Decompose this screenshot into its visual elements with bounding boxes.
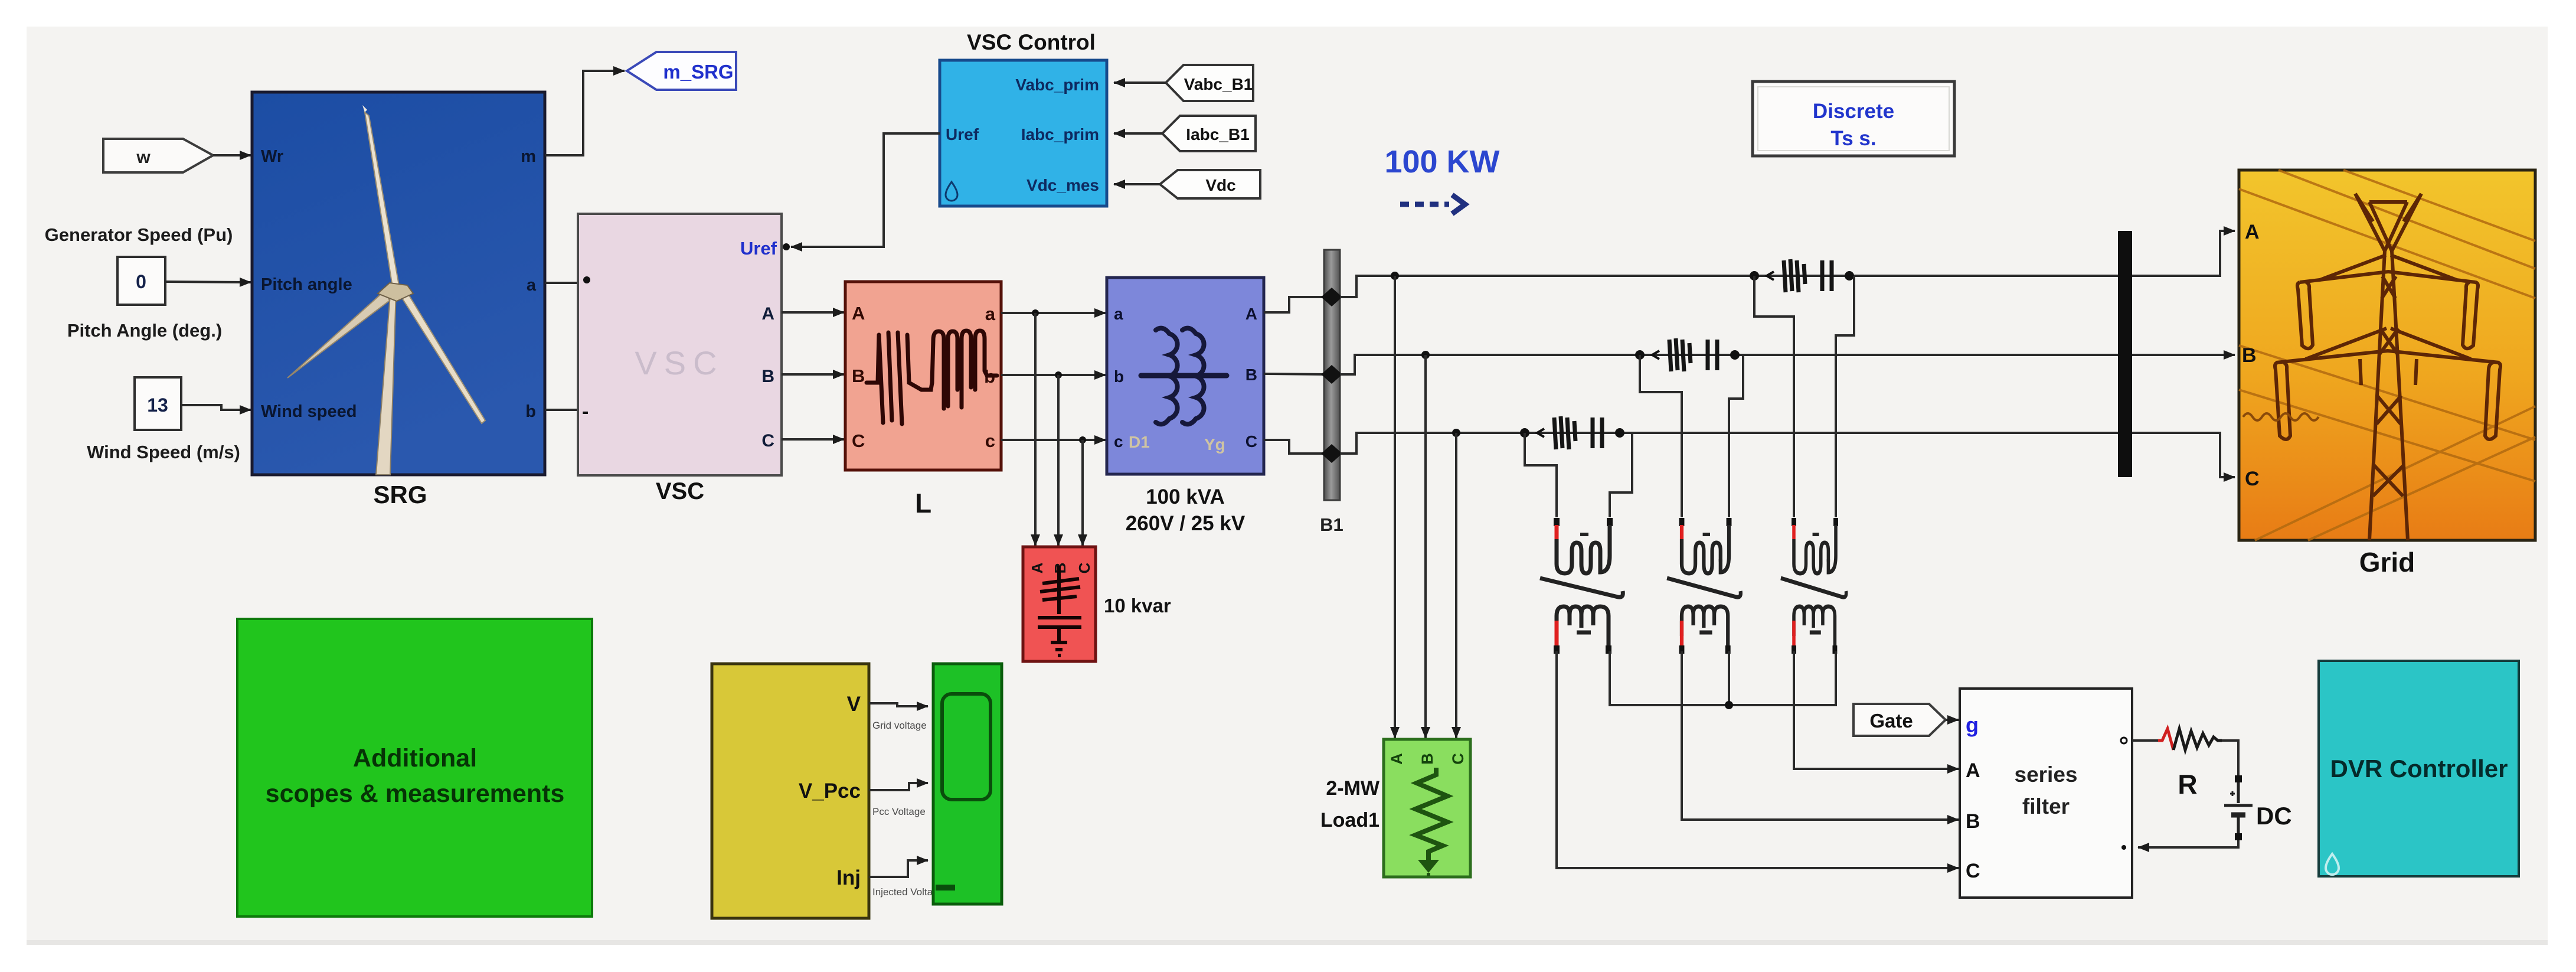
svg-text:C: C	[1966, 860, 1980, 882]
svg-text:B: B	[852, 366, 865, 386]
svg-text:A: A	[852, 303, 865, 324]
svg-text:A: A	[2245, 221, 2260, 243]
svg-text:A: A	[1966, 759, 1980, 782]
svg-text:Vdc: Vdc	[1205, 176, 1235, 194]
goto tag m_SRG	[627, 52, 736, 90]
wire down to 10 kvar A	[1034, 313, 1037, 546]
svg-text:Gate: Gate	[1869, 710, 1913, 732]
svg-text:-: -	[582, 400, 589, 423]
svg-text:V_Pcc: V_Pcc	[799, 779, 861, 803]
svg-text:m: m	[521, 147, 536, 166]
junction node phase C to load	[1452, 429, 1460, 437]
transformer 100 kVA block	[1107, 278, 1264, 474]
wire phase C line bus B1 to grid bus	[1340, 433, 2118, 454]
injection transformer T3 (phase A)	[1781, 518, 1846, 654]
svg-text:C: C	[761, 431, 774, 451]
svg-text:Uref: Uref	[946, 125, 979, 143]
wire grid bus to Grid C	[2132, 433, 2235, 477]
svg-text:Pcc Voltage: Pcc Voltage	[872, 806, 926, 817]
svg-text:B: B	[761, 367, 774, 386]
wire resistor to DC source	[2222, 741, 2238, 779]
resistor R	[2158, 729, 2222, 750]
SRG wind turbine block	[252, 92, 545, 475]
wire phase C down to load C	[1455, 433, 1457, 738]
svg-text:B: B	[1245, 366, 1257, 384]
svg-text:100 KW: 100 KW	[1384, 144, 1499, 180]
svg-text:A: A	[761, 304, 774, 324]
three-phase load block 2-MW Load1	[1384, 739, 1470, 877]
wire secondary common bus T1-T2-T3	[1610, 651, 1836, 705]
constant Wind Speed 13	[135, 377, 181, 430]
svg-text:Wind Speed (m/s): Wind Speed (m/s)	[87, 442, 240, 462]
svg-text:B: B	[1966, 810, 1980, 833]
wire LC-A left down to transformer TA primary left	[1754, 276, 1794, 517]
svg-text:A: A	[1388, 753, 1405, 765]
wire Vdc to VSC Control	[1114, 183, 1160, 185]
junction node phase B to load	[1421, 351, 1430, 359]
svg-text:Inj: Inj	[836, 866, 861, 889]
svg-text:100 kVA: 100 kVA	[1146, 485, 1225, 508]
capacitor bank 10 kvar block	[1023, 547, 1096, 661]
wire down to 10 kvar B	[1057, 375, 1060, 546]
svg-text:C: C	[1449, 753, 1467, 765]
svg-text:SRG: SRG	[373, 481, 427, 508]
svg-text:10 kvar: 10 kvar	[1104, 595, 1171, 617]
svg-text:VSC: VSC	[656, 478, 704, 504]
powergui Discrete block	[1753, 81, 1954, 156]
transformer coil symbols	[1141, 328, 1227, 425]
svg-text:L: L	[915, 488, 931, 518]
wire SRG a to VSC plus	[545, 282, 578, 284]
svg-text:Vdc_mes: Vdc_mes	[1027, 176, 1099, 194]
svg-text:Uref: Uref	[740, 238, 777, 259]
grid bus bar	[2118, 231, 2132, 477]
svg-text:b: b	[525, 402, 536, 421]
load resistor zigzag	[1416, 768, 1447, 860]
wire SRG b to VSC minus	[545, 409, 578, 411]
svg-text:Vabc_prim: Vabc_prim	[1015, 76, 1099, 94]
wire L b to transformer b	[1001, 374, 1106, 376]
inductor L block	[845, 282, 1001, 470]
from tag Vabc_B1	[1166, 65, 1253, 101]
bus B1	[1321, 250, 1342, 500]
wire DC source to series filter minus	[2138, 840, 2238, 847]
svg-text:Discrete: Discrete	[1813, 100, 1894, 123]
DVR Controller block	[2319, 661, 2519, 876]
constant Pitch Angle 0	[117, 257, 165, 305]
svg-text:Iabc_B1: Iabc_B1	[1186, 125, 1249, 143]
distant insulator dots	[2243, 413, 2319, 420]
from tag Vdc	[1160, 170, 1260, 198]
wire Iabc_B1 to VSC Control	[1114, 132, 1162, 135]
wire V to scope	[869, 703, 928, 706]
svg-text:DC: DC	[2256, 802, 2292, 830]
injection transformer T1 (phase C)	[1540, 518, 1623, 654]
wire VSC C to L C	[782, 438, 844, 441]
svg-text:Load1: Load1	[1320, 809, 1379, 831]
series LC branch phase C	[1520, 416, 1624, 449]
L coil drawing	[867, 331, 997, 424]
svg-text:VSC: VSC	[635, 344, 724, 381]
turbine blade lower-right	[400, 291, 485, 423]
svg-text:0: 0	[136, 271, 146, 292]
svg-text:w: w	[136, 148, 151, 167]
svg-text:a: a	[527, 276, 537, 295]
svg-text:Iabc_prim: Iabc_prim	[1021, 125, 1099, 143]
svg-text:c: c	[985, 430, 995, 451]
svg-text:Grid: Grid	[2359, 547, 2415, 578]
from tag Iabc_B1	[1162, 116, 1256, 151]
svg-text:260V / 25 kV: 260V / 25 kV	[1126, 512, 1245, 535]
turbine nacelle	[378, 283, 413, 301]
physical-modeling droplet icon	[946, 182, 957, 201]
from tag w	[103, 139, 213, 172]
junction node phase A to load	[1391, 272, 1399, 280]
junction node common at T2	[1725, 701, 1733, 709]
svg-text:Pitch angle: Pitch angle	[261, 275, 352, 294]
svg-text:Vabc_B1: Vabc_B1	[1184, 75, 1253, 93]
wire grid bus to Grid A	[2132, 231, 2235, 276]
svg-text:A: A	[1245, 305, 1257, 323]
svg-text:C: C	[852, 430, 865, 451]
VSC converter block	[578, 214, 790, 475]
svg-text:B1: B1	[1320, 514, 1343, 535]
svg-text:C: C	[1245, 432, 1257, 451]
svg-text:D1: D1	[1129, 433, 1150, 451]
wire LC-C right down to transformer TC primary right	[1610, 433, 1632, 517]
svg-text:Pitch Angle (deg.): Pitch Angle (deg.)	[67, 320, 222, 341]
wire grid bus to Grid B	[2132, 354, 2235, 356]
wire LC-C left down to transformer TC primary left	[1525, 433, 1557, 517]
Grid block	[2239, 170, 2535, 540]
svg-text:Grid voltage: Grid voltage	[872, 720, 927, 731]
injection transformer T2 (phase B)	[1667, 518, 1741, 654]
svg-text:C: C	[1075, 562, 1093, 573]
svg-text:C: C	[2245, 468, 2260, 490]
wire Inj to scope	[869, 860, 928, 877]
wire T2 secondary left to series filter B	[1682, 651, 1959, 820]
svg-text:Additional: Additional	[353, 744, 477, 772]
svg-text:scopes & measurements: scopes & measurements	[266, 779, 565, 808]
junction node c-wire to 10kvar	[1079, 436, 1086, 443]
svg-text:DVR Controller: DVR Controller	[2330, 755, 2508, 782]
DC source	[2224, 775, 2253, 840]
wire Vabc_B1 to VSC Control	[1114, 81, 1166, 84]
svg-text:m_SRG: m_SRG	[663, 61, 733, 83]
svg-text:Generator Speed (Pu): Generator Speed (Pu)	[45, 224, 233, 245]
wire phase A line bus B1 to grid bus	[1340, 276, 2118, 297]
svg-text:R: R	[2178, 769, 2197, 800]
turbine tower	[376, 287, 396, 475]
wire series filter plus to resistor R	[2132, 739, 2158, 742]
wire V_Pcc to scope	[869, 783, 928, 790]
wire T2 secondary right to common	[1728, 651, 1730, 705]
svg-text:g: g	[1966, 713, 1979, 737]
svg-text:Yg: Yg	[1204, 435, 1225, 454]
wire LC-B right down to transformer TB primary right	[1729, 355, 1743, 517]
wire phase A down to load A	[1394, 276, 1396, 738]
svg-text:Wind speed: Wind speed	[261, 402, 357, 421]
svg-text:c: c	[1114, 432, 1123, 451]
wire constant13 to SRG Wind speed	[181, 405, 251, 410]
svg-text:a: a	[1114, 305, 1123, 323]
wire VSC B to L B	[782, 373, 844, 376]
turbine blade lower-left	[287, 291, 390, 378]
wire transformer A to bus B1	[1264, 297, 1326, 312]
svg-text:V: V	[847, 693, 861, 716]
measurements subsystem yellow block	[712, 664, 869, 918]
wire w-tag to SRG Wr	[213, 154, 251, 156]
wire L a to transformer a	[1001, 312, 1106, 314]
wire L c to transformer c	[1001, 439, 1106, 441]
wire T1 secondary left to series filter C	[1557, 651, 1959, 868]
svg-text:B: B	[2242, 344, 2257, 367]
scope block	[933, 664, 1002, 904]
svg-text:VSC Control: VSC Control	[967, 30, 1096, 54]
svg-text:series: series	[2015, 762, 2078, 787]
wire T3 secondary left to series filter A	[1794, 651, 1959, 769]
svg-text:Ts s.: Ts s.	[1830, 127, 1876, 150]
wire down to 10 kvar C	[1081, 440, 1084, 546]
junction node b-wire to 10kvar	[1055, 371, 1062, 379]
svg-text:A: A	[1028, 562, 1046, 573]
svg-text:13: 13	[147, 394, 168, 416]
from tag Gate	[1853, 704, 1946, 736]
VSC Control block	[940, 60, 1107, 206]
wire LC-A right down to transformer TA primary right	[1836, 276, 1854, 517]
wire SRG m to goto tag m_SRG	[545, 71, 625, 155]
svg-text:b: b	[1114, 367, 1124, 386]
svg-text:2-MW: 2-MW	[1326, 777, 1380, 800]
Additional scopes block	[237, 619, 592, 916]
load ground arrow	[1418, 860, 1439, 873]
svg-text:Wr: Wr	[261, 147, 283, 166]
series LC branch phase B	[1635, 338, 1740, 371]
series LC branch phase A	[1750, 259, 1854, 292]
annotation dashed arrow	[1400, 195, 1465, 214]
wire transformer C to bus B1	[1264, 440, 1326, 454]
wire LC-B left down to transformer TB primary left	[1640, 355, 1682, 517]
wire phase B down to load B	[1424, 355, 1427, 738]
junction node a-wire to 10kvar	[1032, 309, 1039, 317]
wire transformer B to bus B1	[1264, 374, 1326, 374]
svg-text:filter: filter	[2022, 794, 2070, 818]
transmission lines background	[2239, 170, 2535, 540]
turbine blade up	[365, 112, 399, 286]
wire constant0 to SRG Pitch angle	[165, 282, 251, 282]
tower drawing	[2275, 194, 2500, 540]
series filter block	[1960, 689, 2132, 898]
wire Gate to series filter g	[1946, 719, 1959, 721]
wire VSC A to L A	[782, 311, 844, 314]
svg-text:B: B	[1418, 753, 1436, 765]
wire phase B line bus B1 to grid bus	[1340, 355, 2118, 374]
wire VSC Control Uref to VSC Uref	[791, 133, 940, 247]
svg-text:a: a	[985, 304, 996, 324]
